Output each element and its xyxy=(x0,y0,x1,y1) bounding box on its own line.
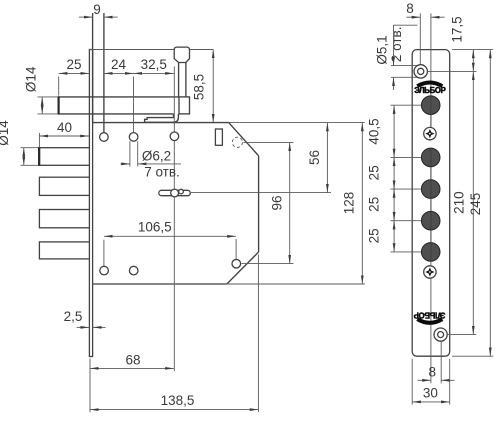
deadbolt front face (thick) xyxy=(57,96,59,114)
svg-text:32,5: 32,5 xyxy=(141,57,167,72)
svg-text:2,5: 2,5 xyxy=(64,309,83,324)
svg-text:Ø14: Ø14 xyxy=(24,66,39,92)
ext line hole column 2 xyxy=(133,77,135,133)
deadbolt bottom edge xyxy=(38,113,59,115)
ext handle axis to dim 96 xyxy=(244,141,294,143)
Ø5,1 tangent ext lines xyxy=(391,65,418,67)
svg-text:25: 25 xyxy=(66,57,81,72)
dim Ø14 row1 line xyxy=(23,148,25,166)
hole bottom row 2 xyxy=(129,266,138,275)
dim 58,5 line xyxy=(212,50,214,123)
bottom countersunk hole xyxy=(434,328,447,341)
ext 106,5 left to bottom hole xyxy=(103,240,105,267)
bolt tail block xyxy=(179,97,190,114)
svg-text:7 отв.: 7 отв. xyxy=(144,164,180,179)
flat bolt row 2 xyxy=(39,177,89,195)
svg-text:8: 8 xyxy=(429,364,437,379)
flat bolt row 1 xyxy=(39,148,90,166)
dim Ø14 top line xyxy=(41,97,43,114)
vertical rod 9 wide, left line xyxy=(92,13,94,123)
logo ELBOR top xyxy=(414,83,445,96)
svg-text:25: 25 xyxy=(367,228,382,243)
svg-text:ЭЛЬБОР: ЭЛЬБОР xyxy=(414,86,445,95)
svg-text:24: 24 xyxy=(111,57,127,72)
svg-text:40: 40 xyxy=(57,120,72,135)
body top-right chamfer xyxy=(229,123,259,156)
ext plate bottom edge to 245 dim xyxy=(452,355,493,357)
Ø6,2 dim arrows xyxy=(121,163,130,165)
hole top row 3 xyxy=(170,132,179,141)
svg-text:Ø5,1: Ø5,1 xyxy=(374,35,389,64)
svg-text:25: 25 xyxy=(367,165,382,180)
svg-text:17,5: 17,5 xyxy=(449,16,464,42)
top countersunk hole xyxy=(414,65,427,78)
handle square hole (hidden, dashed) xyxy=(232,137,242,147)
ext top hole axis to 17,5/210 dims xyxy=(428,70,477,72)
svg-text:58,5: 58,5 xyxy=(192,74,207,100)
ext line bolt face to dim 25 xyxy=(58,77,60,96)
slot near chamfer xyxy=(215,129,222,145)
svg-text:128: 128 xyxy=(342,192,357,215)
dark cylinder hole 1 xyxy=(421,96,440,115)
ext 106,5 right to chamfer hole xyxy=(235,239,237,259)
L-shaped drive rod under bolt xyxy=(145,114,179,122)
body bottom-right chamfer xyxy=(227,252,259,284)
ext plate edges down to dim 30 xyxy=(411,359,413,405)
ext body right corner down to dim 138,5 xyxy=(257,255,259,413)
faceplate front view outline xyxy=(412,50,450,357)
svg-text:68: 68 xyxy=(125,353,140,368)
hole bottom row 1 xyxy=(100,266,109,275)
dim 9 lines with outside arrows xyxy=(79,16,93,18)
svg-text:106,5: 106,5 xyxy=(138,219,172,234)
ext bottom-8 axis xyxy=(440,341,442,383)
ext of body bottom to 128 dim xyxy=(227,283,365,285)
hole on chamfer xyxy=(232,259,241,268)
phillips screw 2 xyxy=(424,266,436,278)
extension line at top of roller cap y=49.5 xyxy=(89,49,213,51)
flat bolt row 3 xyxy=(39,210,89,228)
svg-text:245: 245 xyxy=(468,193,483,216)
keyhole slot xyxy=(159,190,191,195)
flat bolt row 4 xyxy=(39,242,89,259)
svg-text:25: 25 xyxy=(367,197,382,212)
roller cap xyxy=(174,47,189,62)
ext plate top edge to 245 dim xyxy=(452,49,493,51)
dim 8 bottom arrows xyxy=(418,379,431,381)
ext line hole column 3 (long, to dim 68) xyxy=(173,67,175,372)
ext of body top to 128/56 dims xyxy=(229,122,365,124)
logo ELBOR bottom (rotated 180) xyxy=(414,310,445,323)
svg-text:2 отв.: 2 отв. xyxy=(389,27,404,63)
body right edge xyxy=(258,156,260,252)
chain dim column (40,5 / 25 / 25 / 25) xyxy=(393,105,395,252)
ext lines row1 xyxy=(21,147,39,149)
svg-text:30: 30 xyxy=(423,385,438,400)
svg-text:9: 9 xyxy=(93,2,101,17)
svg-text:Ø14: Ø14 xyxy=(0,120,11,146)
Ø5,1 leader shelf xyxy=(393,24,417,26)
ext plate left edge down to dims 68 / 138,5 xyxy=(89,359,91,413)
svg-text:ЭЛЬБОР: ЭЛЬБОР xyxy=(414,310,445,319)
ext line top hole column xyxy=(419,13,421,64)
Ø5,1 dim line with outside arrows xyxy=(393,25,395,65)
deadbolt round Ø14: top edge xyxy=(38,96,59,98)
hole top row 1 xyxy=(100,133,109,142)
axis line over holes xyxy=(430,95,432,127)
svg-text:Ø6,2: Ø6,2 xyxy=(142,149,171,164)
svg-text:8: 8 xyxy=(406,1,414,16)
keyhole circle xyxy=(171,189,179,197)
dark cylinder hole 5 xyxy=(421,243,440,262)
plate axis line xyxy=(430,13,432,127)
faceplate (side view, 2.5 thick) xyxy=(89,50,92,357)
hole top row 2 xyxy=(129,133,138,142)
roller shaft xyxy=(178,62,180,97)
svg-text:138,5: 138,5 xyxy=(161,393,195,408)
ext chamfer hole axis to dim 96 xyxy=(242,263,294,265)
Ø6,2 tangent ext lines from hole 2 xyxy=(129,141,131,166)
dim 8 top arrows xyxy=(406,16,420,18)
svg-text:40,5: 40,5 xyxy=(367,118,382,144)
phillips screw 1 xyxy=(424,127,436,139)
vertical rod 9 wide, right line xyxy=(103,13,105,133)
lock body top edge xyxy=(93,122,229,124)
svg-text:210: 210 xyxy=(451,191,466,214)
ext lines to dark holes xyxy=(391,104,422,106)
svg-text:56: 56 xyxy=(307,150,322,165)
svg-text:96: 96 xyxy=(270,195,285,210)
ext line keyhole axis to dim 56 xyxy=(191,192,331,194)
keyhole second bump xyxy=(179,189,184,194)
body bottom edge xyxy=(93,283,227,285)
dark cylinder hole 2 xyxy=(421,148,440,167)
dark cylinder hole 4 xyxy=(421,211,440,230)
ext bottom hole axis to 210 dim xyxy=(447,334,476,336)
dark cylinder hole 3 xyxy=(421,180,440,199)
